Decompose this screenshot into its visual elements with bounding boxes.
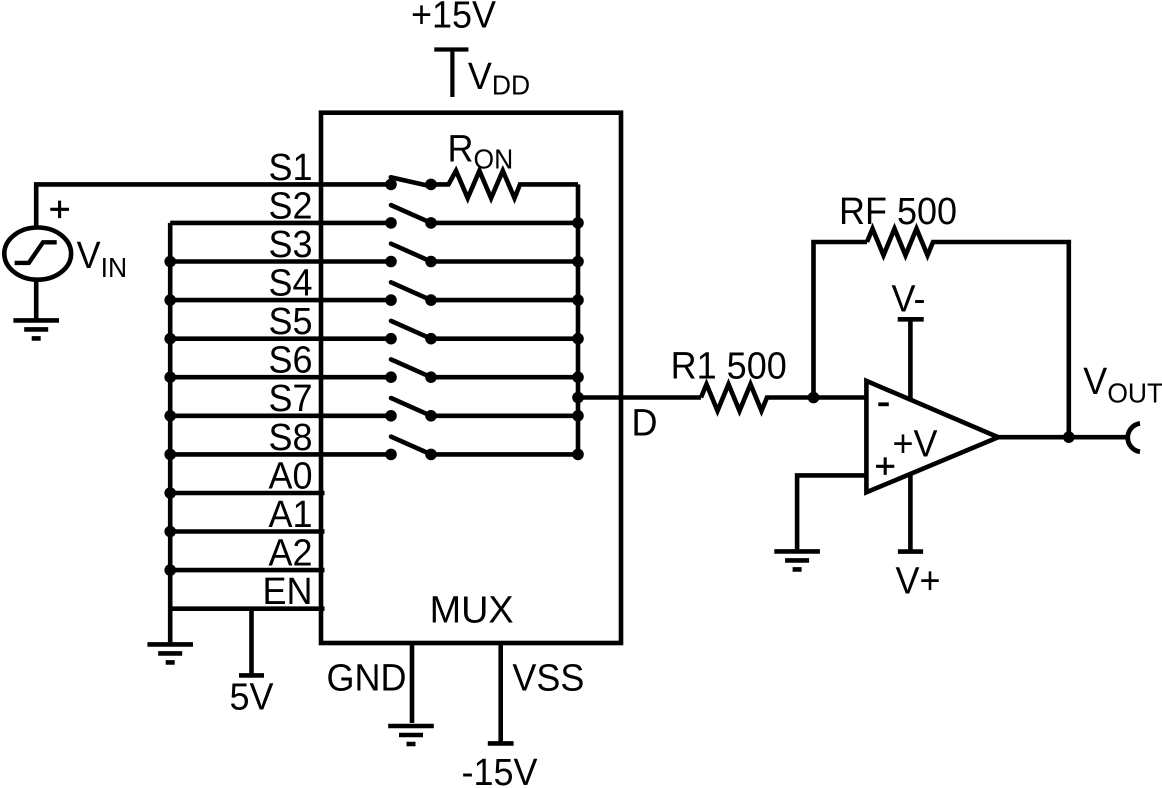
- wire S2: [170, 221, 391, 226]
- switch S1 blade (closed): [391, 177, 431, 186]
- switch S8 blade: [391, 437, 431, 455]
- source VIN: [4, 228, 71, 280]
- wire left bus S2..EN: [168, 223, 173, 642]
- wire EN: [170, 606, 324, 611]
- svg-text:S1: S1: [268, 146, 312, 188]
- wire V+ stub: [908, 474, 913, 552]
- svg-text:EN: EN: [262, 570, 312, 612]
- wire S2 to bus: [431, 221, 578, 226]
- svg-text:S2: S2: [268, 185, 312, 227]
- wire S5: [170, 336, 391, 341]
- ground at GND pin: [388, 726, 434, 744]
- wire S4: [170, 298, 391, 303]
- resistor RON: [431, 171, 578, 198]
- junction dots on right bus: [572, 217, 584, 460]
- wire GND pin: [410, 643, 415, 723]
- wire A1: [170, 529, 324, 534]
- junction dots on left bus: [164, 256, 176, 576]
- source VIN wire to S1: [36, 184, 391, 227]
- wire S5 to bus: [431, 336, 578, 341]
- svg-text:-15V: -15V: [461, 751, 537, 788]
- switch S4 blade: [391, 282, 431, 300]
- switch S6 blade: [391, 359, 431, 377]
- svg-text:GND: GND: [327, 657, 407, 699]
- VSS terminal bar: [488, 741, 514, 746]
- svg-text:S8: S8: [268, 416, 312, 458]
- V- terminal bar: [898, 317, 924, 322]
- svg-text:A1: A1: [268, 493, 312, 535]
- svg-text:R1 500: R1 500: [671, 345, 787, 387]
- resistor RF: [867, 229, 1069, 437]
- svg-text:RF 500: RF 500: [839, 190, 957, 232]
- op-amp minus input mark: [878, 402, 889, 406]
- svg-text:RON: RON: [448, 128, 514, 175]
- switch S2 blade: [391, 205, 431, 223]
- wire S6 to bus: [431, 375, 578, 380]
- switch contact dots: [385, 179, 437, 461]
- wire op-amp output: [998, 435, 1126, 440]
- switch S7 blade: [391, 398, 431, 416]
- svg-text:S5: S5: [268, 300, 312, 342]
- op-amp U2 triangle: [866, 381, 998, 492]
- ground at VIN: [13, 320, 59, 338]
- junction dot output node: [1063, 431, 1075, 443]
- svg-text:VOUT: VOUT: [1083, 360, 1162, 408]
- ground at left bus bottom: [147, 644, 193, 662]
- op-amp plus input mark: [876, 457, 894, 475]
- 5V terminal bar: [239, 673, 264, 678]
- svg-text:VSS: VSS: [512, 657, 584, 699]
- switch S5 blade: [391, 321, 431, 339]
- wire A2: [170, 568, 324, 573]
- wire S8: [170, 452, 391, 457]
- svg-text:+15V: +15V: [411, 0, 496, 36]
- wire S7 to bus: [431, 413, 578, 418]
- svg-text:MUX: MUX: [430, 589, 514, 631]
- svg-text:S7: S7: [268, 377, 312, 419]
- resistor R1: [701, 384, 866, 411]
- svg-text:5V: 5V: [229, 676, 273, 718]
- wire S6: [170, 375, 391, 380]
- wire right bus: [576, 184, 581, 454]
- wire S3: [170, 259, 391, 264]
- source VIN ramp symbol: [15, 242, 57, 263]
- V+ terminal bar: [898, 549, 923, 554]
- output terminal arc: [1128, 423, 1140, 451]
- wire S8 to bus: [431, 452, 578, 457]
- svg-text:A2: A2: [268, 532, 312, 574]
- svg-text:S4: S4: [268, 262, 312, 304]
- power tap VDD symbol: [434, 50, 468, 98]
- svg-text:S3: S3: [268, 223, 312, 265]
- wire VIN to ground: [34, 280, 39, 320]
- wire A0: [170, 491, 324, 496]
- wire S7: [170, 413, 391, 418]
- switch S3 blade: [391, 244, 431, 262]
- ground at op-amp: [774, 551, 820, 569]
- wire feedback loop: [814, 242, 868, 398]
- svg-text:VDD: VDD: [468, 55, 530, 100]
- wire non-inverting input: [797, 475, 866, 549]
- source VIN plus sign: [50, 201, 69, 219]
- svg-text:A0: A0: [268, 455, 312, 497]
- svg-text:VIN: VIN: [77, 234, 128, 283]
- svg-text:V-: V-: [892, 278, 926, 320]
- wire VSS pin: [498, 643, 503, 743]
- svg-text:V+: V+: [896, 560, 941, 602]
- wire node D output: [578, 395, 701, 400]
- svg-text:S6: S6: [268, 339, 312, 381]
- junction dot inverting node: [808, 392, 820, 404]
- svg-text:+V: +V: [893, 423, 938, 465]
- svg-text:D: D: [632, 402, 658, 444]
- wire S4 to bus: [431, 298, 578, 303]
- 5V stub wire: [249, 609, 254, 676]
- wire V- stub: [908, 319, 913, 400]
- wire S3 to bus: [431, 259, 578, 264]
- MUX box U1: [321, 113, 621, 643]
